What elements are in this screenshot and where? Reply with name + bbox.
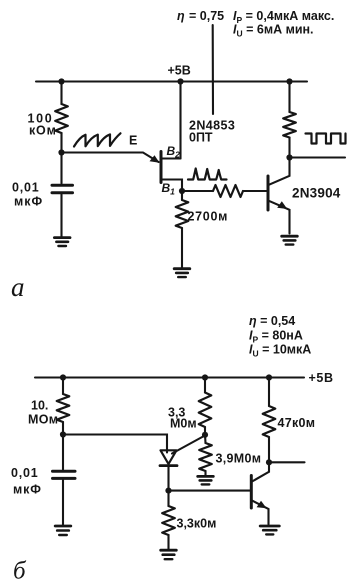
node rail junction left (b)	[60, 374, 66, 380]
svg-text:10.: 10.	[31, 399, 48, 413]
wire R47k to collector node	[268, 437, 270, 462]
ground (under R270)	[174, 269, 190, 277]
node rail junction right (b)	[266, 374, 272, 380]
svg-text:б: б	[13, 558, 27, 581]
svg-text:а: а	[11, 272, 25, 302]
wire node to capacitor (b)	[62, 435, 64, 470]
pin collector 2N3904	[269, 158, 290, 185]
leader line to 2N4853	[212, 25, 214, 114]
wire B1 node to R270	[181, 191, 183, 200]
wire R10M to node	[62, 422, 64, 435]
wire diode to base node	[167, 467, 169, 491]
svg-text:B2: B2	[167, 144, 181, 160]
wire rail to R47k	[268, 378, 270, 407]
diode (anode top)	[161, 450, 177, 464]
pin emitter 2N3904	[269, 201, 290, 234]
resistor 3,3 MOm	[199, 393, 212, 428]
svg-text:E: E	[129, 134, 137, 148]
wire node to R3.9M	[204, 435, 207, 443]
resistor 3,9 MOm	[199, 443, 212, 471]
pin collector (b)	[252, 462, 269, 481]
emitter arrowhead (b)	[257, 501, 267, 509]
square wave symbol	[306, 134, 346, 144]
svg-text:B1: B1	[162, 181, 176, 197]
diode cathode bar	[160, 464, 177, 467]
svg-text:0ПТ: 0ПТ	[189, 131, 213, 145]
resistor 3,3 kOm	[162, 506, 175, 535]
svg-text:мкФ: мкФ	[14, 195, 43, 209]
node +5V junction	[177, 78, 183, 84]
resistor 10 MOm	[57, 394, 70, 422]
wire node to diode anode	[63, 435, 167, 453]
sawtooth waveform symbol	[74, 133, 121, 146]
svg-text:IU = 6мА мин.: IU = 6мА мин.	[233, 23, 314, 39]
wire capacitor to ground (b)	[62, 480, 64, 525]
ground (emitter b)	[260, 526, 279, 534]
resistor 270 Om	[176, 200, 189, 228]
node rail junction middle (b)	[202, 374, 208, 380]
svg-text:МОм: МОм	[28, 413, 58, 427]
svg-text:мкФ: мкФ	[13, 483, 42, 497]
emitter arrowhead	[150, 155, 160, 163]
svg-text:2700м: 2700м	[188, 210, 229, 224]
wire base node to transistor base (b)	[169, 490, 251, 492]
svg-text:IU = 10мкА: IU = 10мкА	[249, 343, 311, 359]
node base junction (b)	[165, 488, 171, 494]
svg-text:η: η	[177, 9, 185, 23]
svg-text:0,01: 0,01	[12, 181, 40, 195]
svg-text:3,9М0м: 3,9М0м	[216, 452, 262, 466]
pin B2 lead	[162, 157, 181, 159]
svg-text:+5В: +5В	[309, 371, 334, 385]
svg-text:= 0,75: = 0,75	[189, 9, 224, 23]
wire node E to emitter	[62, 153, 159, 163]
wire B2 to rail	[179, 82, 181, 159]
wire rail to R 100k	[60, 82, 62, 105]
wire R3.3M to node	[204, 427, 206, 435]
node collector junction	[286, 154, 292, 160]
svg-text:η = 0,54: η = 0,54	[249, 314, 295, 328]
svg-text:+5В: +5В	[168, 64, 191, 78]
svg-text:47к0м: 47к0м	[278, 416, 316, 430]
wire R270 to ground	[181, 228, 183, 268]
wire R3.9M to ground	[204, 471, 206, 475]
transistor (b) base bar	[250, 476, 253, 509]
ground (cap b)	[55, 526, 71, 535]
emitter arrowhead 2N3904	[277, 201, 287, 209]
ground (cap a)	[54, 238, 70, 246]
node divider junction (b)	[202, 432, 208, 438]
resistor 100 kOm	[55, 104, 68, 133]
svg-text:М0м: М0м	[170, 417, 197, 431]
capacitor 0,01 uF (b)	[53, 471, 76, 478]
resistor base (unlabeled)	[213, 185, 243, 197]
wire +5V rail (a)	[36, 80, 307, 82]
wire rail to right resistor	[288, 82, 290, 113]
pin B1 lead	[162, 180, 182, 192]
svg-text:0,01: 0,01	[11, 466, 39, 480]
svg-text:кОм: кОм	[29, 124, 57, 138]
ground (R3.3k)	[161, 550, 177, 559]
resistor 47 kOm	[263, 406, 276, 437]
wire rail to R10M	[62, 378, 64, 395]
wire +5V rail (b)	[35, 376, 304, 378]
wire output (b)	[269, 461, 305, 463]
node RC junction (b)	[60, 431, 66, 437]
wire resistor to collector node	[288, 138, 290, 158]
node rail-right junction	[286, 78, 292, 84]
pulse waveform symbol	[188, 169, 227, 180]
wire base resistor to transistor	[243, 190, 267, 192]
wire base node to R3.3k	[167, 491, 169, 506]
wire node E to capacitor	[60, 153, 62, 184]
resistor collector load (unlabeled)	[283, 112, 296, 138]
ground (R3.9M)	[198, 476, 214, 484]
node rail-left junction	[58, 78, 64, 84]
ground (emitter a)	[282, 236, 298, 244]
svg-text:3,3к0м: 3,3к0м	[177, 517, 217, 531]
svg-text:2N3904: 2N3904	[292, 186, 341, 201]
transistor 2N3904 base bar	[267, 176, 270, 210]
wire rail to R3.3M	[204, 378, 206, 393]
node collector junction (b)	[266, 459, 272, 465]
wire output (a)	[290, 156, 346, 158]
wire node to diode (diagonal)	[172, 436, 204, 454]
op: UJT 2N4853 base bar	[160, 152, 163, 183]
node B1 junction	[179, 188, 185, 194]
pin emitter (b)	[252, 501, 269, 525]
wire B1 node to base resistor	[182, 190, 213, 192]
wire capacitor to ground	[60, 195, 62, 237]
wire R 100k to node E	[60, 133, 62, 153]
node E junction	[58, 149, 64, 155]
capacitor 0,01 uF (a)	[52, 185, 73, 193]
wire R3.3k to ground	[167, 535, 169, 549]
